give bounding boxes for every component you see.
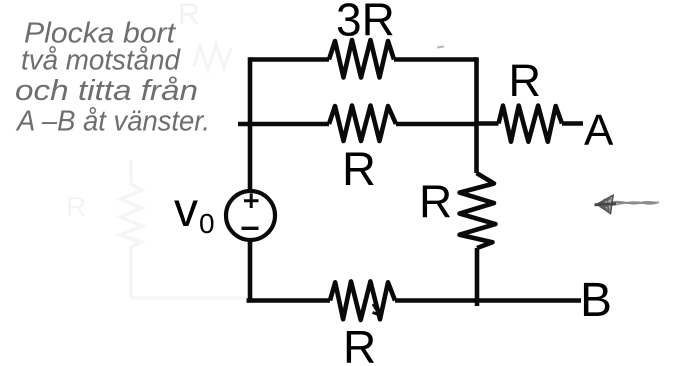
- svg-text:0: 0: [199, 208, 215, 239]
- wire R to terminal A: [562, 121, 583, 126]
- left rail lower: [248, 240, 253, 303]
- svg-text:R: R: [509, 55, 542, 106]
- resistor 3R: [329, 40, 394, 78]
- svg-text:två motstånd: två motstånd: [21, 45, 181, 77]
- svg-text:3R: 3R: [336, 0, 395, 46]
- svg-text:v: v: [174, 184, 198, 237]
- resistor R (series to A): [499, 106, 563, 142]
- svg-text:A: A: [584, 106, 614, 155]
- svg-text:B: B: [580, 274, 612, 327]
- svg-text:A –B åt vänster.: A –B åt vänster.: [15, 106, 210, 138]
- erased ghost resistor R (left vertical): [66, 160, 246, 298]
- arrowhead scribble triangle: [597, 195, 613, 213]
- wire 3R to right rail: [394, 57, 477, 62]
- wire middle (overshoot to middle resistor R): [238, 122, 329, 127]
- bottom wire left: [247, 298, 331, 303]
- wire middle R to junction: [396, 122, 477, 127]
- pen tick on bottom resistor: [373, 304, 381, 315]
- right rail lower: [475, 248, 480, 306]
- annotation arrow (gray, pointing left): [595, 195, 660, 213]
- left rail upper: [248, 57, 253, 191]
- svg-text:R: R: [178, 0, 200, 31]
- V0 plus sign: [244, 194, 259, 209]
- svg-text:R: R: [419, 176, 452, 228]
- wire top-left (left rail to 3R): [250, 57, 329, 62]
- resistor R (bottom): [330, 281, 395, 320]
- bottom wire right to B: [395, 298, 581, 303]
- resistor R (middle): [329, 106, 396, 142]
- wire junction to series R: [477, 121, 499, 126]
- V0 minus sign: [242, 227, 259, 230]
- resistor R (vertical): [460, 173, 496, 248]
- small gray dash artifact: [437, 47, 444, 48]
- svg-text:R: R: [343, 321, 376, 366]
- erased ghost resistor R (top area): [178, 0, 231, 70]
- svg-text:och titta från: och titta från: [15, 75, 198, 107]
- voltage source V0 circle: [226, 191, 275, 240]
- svg-text:R: R: [342, 142, 376, 195]
- svg-text:R: R: [66, 191, 86, 222]
- right rail upper: [474, 57, 479, 173]
